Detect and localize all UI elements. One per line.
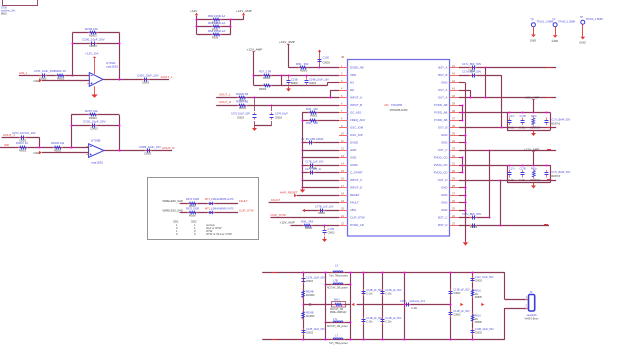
svg-text:HAP_RESET: HAP_RESET: [280, 191, 298, 195]
svg-text:OTW or OLd or OTW: OTW or OLd or OTW: [206, 232, 232, 236]
svg-text:+12V_AMP: +12V_AMP: [524, 148, 539, 152]
svg-text:INPUT_B: INPUT_B: [350, 103, 362, 107]
svg-text:GND: GND: [441, 133, 447, 137]
svg-text:C0603: C0603: [142, 81, 150, 84]
svg-text:GND: GND: [530, 39, 536, 43]
svg-text:OUT_A: OUT_A: [438, 96, 448, 100]
svg-text:antinoise_0V1: antinoise_0V1: [410, 300, 426, 303]
svg-text:R0603: R0603: [300, 69, 308, 72]
svg-text:BST_B: BST_B: [438, 73, 447, 77]
svg-text:C14B_pF_50V: C14B_pF_50V: [385, 317, 402, 320]
svg-text:B802: B802: [1, 12, 7, 15]
svg-text:GND: GND: [552, 39, 558, 43]
svg-text:AVDD: AVDD: [350, 163, 358, 167]
svg-text:+12V_AMP: +12V_AMP: [279, 40, 295, 44]
svg-text:OUT_C: OUT_C: [438, 148, 448, 152]
svg-text:C0603: C0603: [475, 333, 483, 335]
svg-text:OUT_B: OUT_B: [438, 126, 448, 130]
svg-text:PVDD_CD: PVDD_CD: [434, 163, 448, 167]
svg-text:INPUT_A: INPUT_A: [350, 96, 362, 100]
svg-text:C-10x: C-10x: [385, 322, 392, 324]
svg-text:ATPA3255-ACPM: ATPA3255-ACPM: [390, 109, 408, 112]
svg-text:GND: GND: [350, 156, 356, 160]
svg-text:FREQ_ADJ: FREQ_ADJ: [350, 118, 366, 122]
svg-text:C0603: C0603: [453, 315, 461, 317]
svg-text:C13B_pF_50V: C13B_pF_50V: [453, 289, 470, 292]
svg-text:R016: R016: [475, 314, 482, 317]
svg-text:GND: GND: [441, 193, 447, 197]
svg-text:C17B: C17B: [520, 115, 527, 118]
svg-text:DVDD_CD: DVDD_CD: [350, 223, 364, 227]
svg-text:R0x0x: R0x0x: [239, 107, 247, 110]
svg-text:L3: L3: [335, 263, 339, 267]
svg-text:M2: M2: [350, 88, 354, 92]
svg-text:4R: 4R: [475, 319, 478, 321]
svg-text:C-10x: C-10x: [411, 308, 418, 310]
svg-text:INPUT_D: INPUT_D: [350, 186, 362, 190]
svg-text:C200_10pF_50V: C200_10pF_50V: [82, 37, 105, 41]
svg-text:R0603: R0603: [19, 150, 27, 153]
svg-text:C0603: C0603: [453, 293, 461, 295]
svg-text:AOUT_R: AOUT_R: [162, 146, 175, 150]
svg-text:C17B: C17B: [520, 168, 527, 171]
svg-text:VBG: VBG: [350, 208, 357, 212]
svg-text:C17x_Bb4F_50V: C17x_Bb4F_50V: [552, 171, 571, 174]
svg-text:OUT_A: OUT_A: [438, 88, 448, 92]
svg-text:C17x_Bb4F_50V: C17x_Bb4F_50V: [552, 118, 571, 121]
svg-text:opa1652: opa1652: [106, 65, 118, 69]
svg-text:C-10x: C-10x: [366, 294, 373, 296]
svg-text:TP: TP: [530, 18, 534, 22]
svg-text:R207 10k: R207 10k: [85, 109, 98, 113]
svg-text:C0603: C0603: [306, 281, 314, 283]
svg-text:R0603: R0603: [310, 114, 318, 117]
svg-text:R0236 10k: R0236 10k: [51, 141, 65, 145]
svg-text:PVDD_AB: PVDD_AB: [434, 111, 447, 115]
svg-text:R03x: R03x: [531, 115, 538, 118]
svg-text:C13B_10uF_50V: C13B_10uF_50V: [475, 328, 494, 331]
svg-text:GND: GND: [441, 201, 447, 205]
svg-text:OSC_IOM: OSC_IOM: [350, 126, 364, 130]
svg-text:L7x: L7x: [333, 317, 338, 321]
svg-text:C147_10uF_50V: C147_10uF_50V: [475, 276, 494, 279]
svg-text:R10k: R10k: [212, 36, 219, 40]
svg-text:C14B_10uF_16V: C14B_10uF_16V: [309, 78, 329, 82]
svg-text:WIRELESS_SHD: WIRELESS_SHD: [163, 199, 183, 203]
svg-text:+12V_AMP: +12V_AMP: [247, 48, 263, 52]
svg-text:BST_D: BST_D: [438, 223, 447, 227]
svg-text:R61 100R-1A: R61 100R-1A: [208, 21, 225, 25]
svg-text:GND: GND: [441, 81, 447, 85]
svg-text:INPUT_C: INPUT_C: [350, 178, 362, 182]
svg-text:R07_3.3R: R07_3.3R: [259, 69, 271, 73]
svg-text:4R: 4R: [475, 294, 478, 296]
svg-text:+12V_AMP: +12V_AMP: [236, 9, 252, 13]
svg-text:INR: INR: [4, 143, 9, 147]
svg-text:TP: TP: [552, 18, 556, 22]
svg-text:R0805: R0805: [475, 297, 483, 299]
svg-text:PVDD_CD: PVDD_CD: [434, 171, 448, 175]
svg-text:R971 100R: R971 100R: [186, 197, 199, 201]
svg-text:C17x_47B_4x: C17x_47B_4x: [305, 167, 322, 171]
svg-text:C0603: C0603: [237, 118, 245, 120]
svg-text:C-10x: C-10x: [519, 180, 526, 182]
svg-text:TPx02_1.5MM: TPx02_1.5MM: [558, 20, 575, 24]
svg-text:4R/4W0: 4R/4W0: [306, 295, 315, 297]
svg-text:C17B_10uF_50V: C17B_10uF_50V: [306, 277, 325, 280]
svg-text:C-10x: C-10x: [366, 322, 373, 324]
svg-text:B0603: B0603: [291, 83, 298, 85]
svg-text:FAULT: FAULT: [239, 199, 248, 203]
svg-text:C17x: C17x: [509, 168, 516, 171]
svg-text:R971 100R: R971 100R: [186, 207, 199, 211]
svg-text:R0603: R0603: [259, 88, 267, 91]
svg-text:B01R/1R: B01R/1R: [531, 180, 541, 182]
svg-text:GND: GND: [579, 41, 585, 45]
svg-text:R016: R016: [475, 289, 482, 292]
svg-text:AOUT_L: AOUT_L: [219, 93, 231, 97]
svg-text:GND: GND: [441, 186, 447, 190]
svg-text:J2: J2: [530, 290, 533, 294]
svg-text:TPA3255: TPA3255: [391, 103, 403, 107]
svg-text:C17B_10uF_50V: C17B_10uF_50V: [306, 328, 325, 331]
svg-text:opa1652: opa1652: [91, 161, 103, 165]
svg-text:7uH_7Wup-power: 7uH_7Wup-power: [329, 275, 348, 278]
svg-text:C100: C100: [323, 56, 330, 60]
svg-text:R0603: R0603: [263, 77, 271, 80]
svg-text:C77B_1uF_16V: C77B_1uF_16V: [315, 204, 334, 208]
svg-text:C150: C150: [400, 300, 407, 303]
svg-text:OUT_D: OUT_D: [438, 178, 448, 182]
svg-text:C-10x: C-10x: [508, 180, 515, 182]
svg-text:R203 10k: R203 10k: [85, 27, 98, 31]
svg-text:7uH_7Wup-power: 7uH_7Wup-power: [329, 342, 348, 345]
svg-text:C0603: C0603: [475, 280, 483, 282]
svg-text:R60_ 390: R60_ 390: [296, 62, 309, 66]
svg-text:AIN_L: AIN_L: [19, 71, 28, 75]
svg-text:MH1: MH1: [334, 297, 340, 301]
svg-text:GND: GND: [350, 148, 356, 152]
svg-text:BST_C: BST_C: [438, 216, 447, 220]
svg-text:LSM4148WS-G470: LSM4148WS-G470: [211, 197, 234, 201]
svg-text:R60 100R-1A: R60 100R-1A: [208, 14, 225, 18]
svg-text:U700B: U700B: [91, 138, 101, 142]
svg-text:PVDD_CD: PVDD_CD: [434, 156, 448, 160]
svg-text:PVDD_AB: PVDD_AB: [434, 118, 447, 122]
svg-text:CLIP_OTW: CLIP_OTW: [239, 209, 254, 213]
svg-text:GND: GND: [441, 208, 447, 212]
svg-text:NC/7uH_1W: NC/7uH_1W: [330, 309, 344, 311]
svg-text:AOUT_L: AOUT_L: [161, 75, 173, 79]
svg-text:CLIP_OTW: CLIP_OTW: [271, 213, 286, 217]
svg-text:R0247 1K: R0247 1K: [16, 141, 28, 145]
svg-text:TPx01_1.5MM: TPx01_1.5MM: [536, 20, 553, 24]
svg-text:C071_10uF_35V: C071_10uF_35V: [34, 69, 55, 73]
svg-text:B01R/1R: B01R/1R: [531, 128, 541, 130]
svg-text:R03x: R03x: [531, 168, 538, 171]
svg-text:C-10x: C-10x: [508, 128, 515, 130]
svg-text:VDD: VDD: [350, 73, 356, 77]
svg-text:DVDD_AB: DVDD_AB: [350, 66, 364, 70]
svg-text:DVDD: DVDD: [350, 141, 358, 145]
svg-text:R06_ 24K: R06_ 24K: [306, 107, 318, 111]
svg-text:R06_ 30K: R06_ 30K: [306, 121, 318, 125]
svg-text:OC_ADJ: OC_ADJ: [350, 111, 362, 115]
svg-text:L7: L7: [335, 334, 339, 338]
svg-text:C13B: C13B: [291, 78, 298, 82]
svg-text:C17B_1uF_16V: C17B_1uF_16V: [305, 159, 324, 163]
svg-text:+12V: +12V: [190, 9, 198, 13]
svg-text:MMZ+1608/142: MMZ+1608/142: [330, 312, 347, 314]
svg-text:C14B_pF_50V: C14B_pF_50V: [453, 310, 470, 313]
svg-text:C0603: C0603: [275, 118, 283, 120]
svg-text:C202_10pF_50V: C202_10pF_50V: [83, 120, 106, 124]
svg-text:TPx03_1.5MM: TPx03_1.5MM: [586, 17, 603, 21]
svg-text:4R/4W0: 4R/4W0: [306, 316, 315, 318]
svg-text:C0603: C0603: [89, 44, 97, 48]
svg-text:FAULT: FAULT: [271, 198, 280, 202]
svg-text:C13B_pF_50V: C13B_pF_50V: [366, 317, 383, 320]
svg-text:VF_BV C3B C0603: VF_BV C3B C0603: [301, 137, 324, 141]
svg-text:C17x_BbF_50V: C17x_BbF_50V: [462, 69, 481, 73]
svg-text:B2rB7r3: B2rB7r3: [552, 175, 561, 178]
svg-text:LSM4148WS-G470: LSM4148WS-G470: [211, 207, 234, 211]
svg-text:C17x: C17x: [509, 115, 516, 118]
svg-text:R0x0x: R0x0x: [189, 216, 196, 218]
svg-text:C071 10uF_10P: C071 10uF_10P: [231, 112, 250, 116]
svg-text:NC/7uH_1W_power: NC/7uH_1W_power: [327, 325, 348, 328]
svg-text:C17x_BbF_50V: C17x_BbF_50V: [462, 62, 481, 66]
svg-text:C0603: C0603: [470, 226, 478, 229]
svg-text:GND: GND: [441, 141, 447, 145]
svg-text:C070 10uF: C070 10uF: [275, 112, 288, 116]
svg-text:C0603: C0603: [90, 126, 98, 130]
svg-text:VH-B-2-Bmm: VH-B-2-Bmm: [525, 318, 539, 320]
svg-text:C17x_BbF_50V: C17x_BbF_50V: [462, 212, 481, 216]
svg-text:R024B: R024B: [306, 291, 314, 294]
svg-text:C13B_pF_50V: C13B_pF_50V: [366, 289, 383, 292]
svg-text:C0603: C0603: [306, 333, 314, 335]
svg-text:R0805: R0805: [475, 322, 483, 324]
svg-text:RESET: RESET: [350, 193, 360, 197]
svg-text:saudio09: saudio09: [527, 314, 538, 317]
svg-text:C20B_10uF_16V: C20B_10uF_16V: [139, 145, 161, 149]
svg-text:R06_ 3R3: R06_ 3R3: [301, 219, 314, 223]
svg-text:C14B_pF_50V: C14B_pF_50V: [385, 289, 402, 292]
svg-text:C0603: C0603: [328, 233, 336, 235]
svg-text:R0237 1B: R0237 1B: [236, 99, 248, 103]
svg-text:U90: U90: [384, 105, 389, 107]
svg-text:C0603: C0603: [323, 62, 331, 65]
svg-text:CLIP_OTW: CLIP_OTW: [350, 216, 365, 220]
svg-text:R62 100R-1A: R62 100R-1A: [208, 29, 225, 33]
svg-text:C_START: C_START: [350, 171, 363, 175]
svg-text:L7B: L7B: [333, 278, 338, 282]
svg-text:R0603: R0603: [305, 227, 313, 230]
svg-text:C074_1074nF_16V: C074_1074nF_16V: [12, 131, 36, 135]
svg-text:R024B: R024B: [306, 312, 314, 315]
svg-text:R020x 1K: R020x 1K: [54, 69, 66, 73]
svg-text:B2rB7r3: B2rB7r3: [552, 122, 561, 125]
svg-text:C206_10uF_16V: C206_10uF_16V: [137, 74, 159, 78]
svg-text:C0603: C0603: [144, 152, 152, 155]
svg-text:FAULT: FAULT: [350, 201, 359, 205]
svg-text:+12V_DA: +12V_DA: [85, 52, 99, 56]
svg-text:R0236 1B: R0236 1B: [236, 92, 248, 96]
svg-text:OSC_IOP: OSC_IOP: [350, 133, 363, 137]
svg-text:C17B: C17B: [328, 227, 335, 231]
svg-text:TP: TP: [580, 15, 584, 19]
svg-text:C-10x: C-10x: [385, 294, 392, 296]
svg-text:M1: M1: [350, 81, 354, 85]
svg-text:NC/7uH_1W_power: NC/7uH_1W_power: [327, 287, 348, 290]
svg-text:C-10x: C-10x: [519, 128, 526, 130]
svg-text:+12V_AMP: +12V_AMP: [524, 95, 539, 99]
svg-text:BST_A: BST_A: [438, 66, 447, 70]
svg-text:AOUT_R: AOUT_R: [219, 100, 232, 104]
svg-text:PVDD_AB: PVDD_AB: [434, 103, 447, 107]
svg-text:C0603: C0603: [309, 83, 317, 85]
svg-text:C0603: C0603: [318, 213, 326, 215]
svg-text:+12V_AMP: +12V_AMP: [280, 221, 295, 225]
